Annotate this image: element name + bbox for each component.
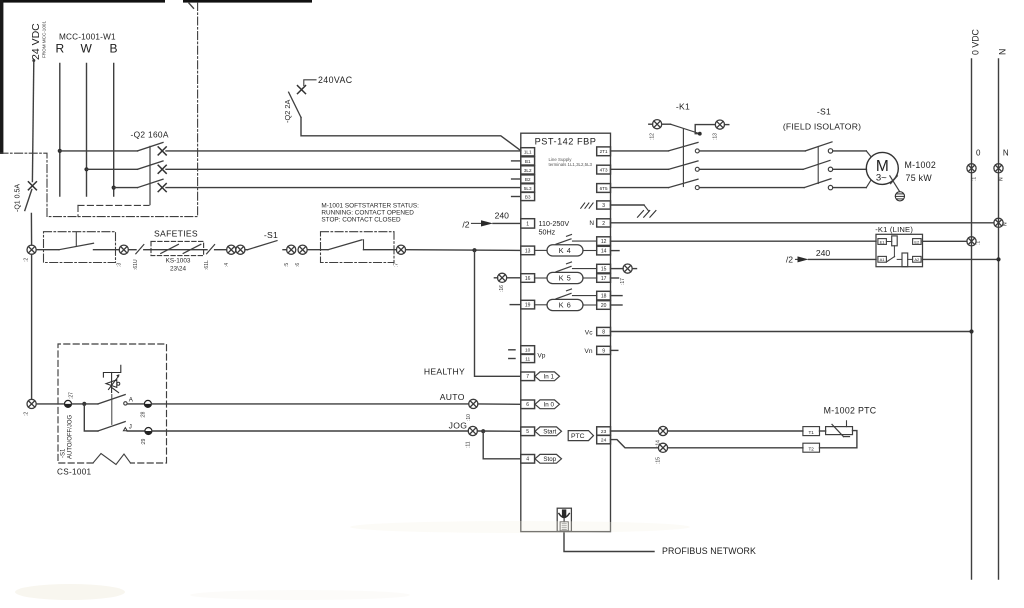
wire jog to stop [483, 431, 521, 459]
svg-text::29: :29 [141, 438, 147, 445]
svg-text::2: :2 [24, 258, 30, 262]
svg-text:Vn: Vn [584, 348, 592, 355]
pin 2T1 [597, 147, 611, 156]
contactor K1 pole 2 [669, 161, 699, 169]
interlock contact [59, 243, 94, 250]
svg-text:-Q2 2A: -Q2 2A [283, 100, 292, 123]
terminal :3 [119, 245, 128, 254]
wire to pin 24 [611, 440, 659, 448]
svg-text::1: :1 [971, 177, 977, 181]
wire auto row [152, 403, 469, 405]
svg-text:-Q2 160A: -Q2 160A [131, 130, 169, 140]
svg-text:7: 7 [526, 374, 529, 380]
svg-text:1L1: 1L1 [524, 150, 532, 155]
svg-text:6: 6 [526, 402, 529, 408]
terminal :10 [469, 399, 478, 408]
motor earth symbol [895, 192, 904, 201]
svg-text:-S1: -S1 [264, 230, 278, 240]
softstarter U1 PST-142 FBP outline [521, 133, 611, 531]
wire [695, 125, 715, 134]
CS-1001 box (dashed) [58, 344, 167, 463]
svg-text:4: 4 [526, 457, 529, 463]
svg-text:15: 15 [601, 267, 607, 273]
svg-text:W: W [81, 42, 93, 56]
wire :2 to :27 [31, 254, 33, 399]
junction [698, 132, 702, 136]
svg-text:240VAC: 240VAC [318, 75, 353, 85]
wire pill K4 to 14 [583, 250, 597, 252]
svg-text:PROFIBUS NETWORK: PROFIBUS NETWORK [662, 546, 756, 556]
K1 coil [892, 236, 898, 246]
terminal :11 [468, 426, 477, 435]
svg-text:3: 3 [602, 203, 605, 209]
wire through safeties box [151, 249, 204, 251]
stub 19 [510, 304, 521, 306]
wire [820, 430, 826, 432]
terminal :1 [967, 237, 976, 246]
svg-text::11: :11 [465, 441, 471, 448]
wire to interlock contact [36, 249, 59, 251]
pin 4T3 [597, 165, 611, 174]
pin B2 [521, 175, 535, 183]
svg-text:18: 18 [601, 294, 607, 300]
svg-text:/2: /2 [786, 255, 793, 265]
stub 18 [611, 295, 623, 297]
svg-text:In 1: In 1 [544, 374, 555, 381]
MCC-1001 panel boundary (dash-dot) [0, 3, 198, 217]
svg-text:23\24: 23\24 [170, 266, 186, 273]
pin 7 In1 [521, 372, 535, 381]
wire [245, 249, 248, 251]
svg-text::61L: :61L [204, 260, 210, 270]
pin E2 [913, 239, 922, 245]
pin 18 [597, 291, 611, 300]
svg-text:2T1: 2T1 [600, 149, 608, 154]
svg-text:/2: /2 [462, 219, 469, 229]
svg-text::7: :7 [394, 263, 400, 267]
svg-text:20: 20 [601, 303, 607, 309]
wire to PST terminal 13 [406, 249, 521, 252]
pin B1 [521, 157, 535, 165]
terminal :29 [127, 430, 144, 432]
terminal (unlabelled) [236, 245, 245, 254]
svg-text:terminals 1L1,3L2,5L3: terminals 1L1,3L2,5L3 [549, 162, 593, 167]
pin 15 [597, 264, 611, 273]
breaker Q2 pole 1 [60, 150, 138, 152]
wire 2T1 to K1 [611, 150, 669, 152]
svg-text::15: :15 [656, 457, 662, 464]
terminal :28 [127, 403, 144, 405]
svg-text::28: :28 [141, 411, 147, 418]
wire [307, 249, 328, 251]
terminal :7 [396, 245, 405, 254]
terminal :27 [65, 400, 72, 407]
terminal :14 [658, 426, 667, 435]
run contact box (dash-dot) [321, 232, 395, 263]
svg-text::6: :6 [295, 263, 301, 267]
terminal :5 [287, 245, 296, 254]
junction on N bus [996, 257, 1000, 261]
svg-text:Stop: Stop [543, 456, 556, 463]
svg-text:24 VDC: 24 VDC [30, 23, 42, 60]
stub 20 [611, 304, 623, 306]
wire jog row [152, 430, 468, 432]
fieldbus plug connector [557, 508, 571, 531]
wire pin12 to K1 coil [611, 240, 877, 242]
wire [36, 403, 64, 405]
svg-text:E1: E1 [880, 239, 886, 244]
svg-text:(FIELD ISOLATOR): (FIELD ISOLATOR) [783, 122, 861, 132]
pin A1 [878, 256, 887, 262]
wire K1 coil feed [662, 123, 671, 125]
wire A2 to N bus [923, 258, 999, 260]
pin 4 Stop [521, 455, 535, 464]
stub 15 terminal :17 [611, 268, 624, 270]
pin T2 [803, 443, 820, 452]
relay K4 [547, 245, 583, 256]
pin 14 [597, 246, 611, 255]
svg-text::2: :2 [24, 412, 30, 416]
svg-text:5L3: 5L3 [524, 186, 532, 191]
motor earth wire [890, 176, 900, 192]
svg-text:B3: B3 [525, 194, 531, 199]
wire thermistor loop [820, 431, 857, 448]
svg-text:Vp: Vp [537, 352, 545, 359]
relay K5 [547, 272, 583, 283]
svg-text:T1: T1 [809, 430, 815, 435]
svg-text:-K1: -K1 [676, 102, 690, 112]
flag 240VAC [304, 80, 316, 86]
terminal :2 (auto row) [27, 399, 36, 408]
svg-text:6T5: 6T5 [600, 186, 608, 191]
wire [204, 249, 207, 251]
svg-text:12: 12 [601, 239, 607, 245]
svg-text:0 VDC: 0 VDC [971, 28, 981, 55]
svg-text:16: 16 [525, 276, 531, 282]
disconnect :61L [207, 245, 215, 254]
svg-text:T2: T2 [809, 447, 815, 452]
terminal N [994, 218, 1003, 227]
selector contact J [84, 404, 98, 431]
K1 linkage [682, 129, 684, 187]
junction W [84, 167, 88, 171]
svg-text:K 4: K 4 [559, 246, 572, 255]
wire 24VDC vertical [32, 59, 35, 62]
bus N [998, 59, 1000, 579]
svg-text:JOG: JOG [449, 421, 468, 431]
svg-text:HEALTHY: HEALTHY [424, 367, 465, 377]
selector contact A [98, 395, 125, 404]
svg-text:17: 17 [601, 276, 607, 282]
terminal :16 [494, 277, 497, 279]
interlock contact box (dash-dot) [44, 232, 116, 263]
pin 24 [597, 435, 611, 443]
disconnect :61U [136, 245, 144, 254]
svg-text:240: 240 [816, 248, 831, 258]
junction R [58, 149, 62, 153]
svg-text::61U: :61U [133, 259, 139, 270]
thermistor M-1002 PTC [826, 427, 853, 435]
wire profibus [564, 532, 654, 552]
pin 5 Start [521, 427, 535, 436]
wire pill K6 [535, 304, 547, 306]
svg-text:K 6: K 6 [559, 300, 572, 309]
breaker Q2 dashed outline [78, 204, 149, 206]
svg-text:E2: E2 [914, 239, 920, 244]
svg-text:75 kW: 75 kW [906, 173, 933, 183]
junction on 0VDC [969, 329, 973, 333]
relay K1 LINE box [876, 234, 923, 266]
svg-text::16: :16 [499, 285, 505, 292]
svg-text:23: 23 [601, 429, 607, 435]
terminal :15 [658, 443, 667, 452]
terminal N on N bus [994, 164, 1003, 173]
pin 3L2 [521, 166, 535, 174]
svg-text:A2: A2 [914, 257, 920, 262]
selector mechanism [103, 365, 120, 377]
breaker Q2 pole 2 [87, 168, 138, 170]
svg-text:24: 24 [601, 438, 607, 444]
stub 14 [611, 250, 620, 252]
svg-text::12: :12 [650, 133, 656, 140]
svg-text:K 5: K 5 [559, 273, 572, 282]
wire T2 back [668, 447, 803, 449]
svg-text:B: B [110, 42, 118, 56]
svg-text:A: A [129, 396, 134, 403]
svg-text:M-1002: M-1002 [905, 160, 937, 170]
wire E2 to 0VDC [923, 240, 967, 242]
wire pill K5 [535, 277, 547, 279]
pin 19 [521, 300, 535, 309]
pin B3 [521, 192, 535, 200]
svg-text:FROM MCC-1001: FROM MCC-1001 [42, 21, 47, 58]
svg-text:0: 0 [976, 149, 981, 158]
pin 12 [597, 237, 611, 246]
svg-text:M-1002 PTC: M-1002 PTC [824, 406, 877, 416]
svg-text:Start: Start [543, 429, 556, 436]
svg-text:14: 14 [601, 249, 607, 255]
isolator S1 linkage [817, 147, 819, 184]
svg-text:-S1: -S1 [817, 107, 831, 117]
pin 13 [521, 246, 535, 255]
pin 3 [597, 201, 611, 209]
svg-text:8: 8 [602, 329, 605, 335]
pin 1 [521, 219, 535, 228]
svg-text:13: 13 [525, 248, 531, 254]
junction selector [82, 402, 86, 406]
motor M-1002 [866, 152, 898, 184]
run contact [328, 240, 362, 250]
pin 20 [597, 301, 611, 310]
pin 23 [597, 427, 611, 435]
wire pin23 to T1 [611, 430, 659, 432]
terminal :6 [298, 245, 307, 254]
wire phase W [86, 64, 88, 197]
svg-text:9: 9 [602, 348, 605, 354]
svg-text:N: N [998, 177, 1004, 181]
svg-text:RUNNING: CONTACT OPENED: RUNNING: CONTACT OPENED [321, 210, 414, 217]
svg-text:CS-1001: CS-1001 [57, 468, 92, 477]
svg-text::4: :4 [224, 263, 230, 267]
svg-text:J: J [129, 424, 132, 431]
svg-text:STOP: CONTACT CLOSED: STOP: CONTACT CLOSED [321, 217, 401, 224]
svg-text::13: :13 [713, 133, 719, 140]
svg-text:Vc: Vc [585, 329, 593, 336]
svg-text:KS-1003: KS-1003 [166, 257, 191, 264]
fuse-switch Q2 2A [298, 86, 306, 94]
svg-text::1: :1 [976, 241, 982, 245]
pin 6T5 [597, 184, 611, 193]
svg-text:N: N [998, 49, 1008, 55]
pin 16 [521, 274, 535, 283]
wire [128, 249, 136, 251]
pin 5L3 [521, 184, 535, 192]
svg-text:N: N [1003, 222, 1009, 226]
stub B1 [512, 160, 521, 162]
wire phase B [113, 64, 115, 197]
relay K6 [547, 299, 583, 310]
pin A2 [913, 256, 922, 262]
svg-text:2: 2 [602, 221, 605, 227]
K1 line aux [902, 253, 908, 267]
svg-text:R: R [56, 42, 65, 56]
breaker Q2 linkage bar [149, 146, 151, 204]
wire [478, 403, 521, 405]
svg-text:B1: B1 [525, 159, 531, 164]
switch S1 [248, 241, 278, 250]
stub B3 [512, 196, 521, 198]
pin 10 [509, 349, 515, 351]
safeties contact a [161, 244, 179, 253]
svg-text::17: :17 [620, 278, 626, 285]
svg-text:-K1 (LINE): -K1 (LINE) [875, 225, 913, 234]
svg-text:19: 19 [525, 303, 531, 309]
bus 0VDC [971, 59, 973, 579]
svg-text:PTC: PTC [571, 433, 585, 440]
terminal :2 on 24VDC bus [27, 245, 36, 254]
isolator S1 pole 1 [805, 142, 832, 151]
scan smudge [15, 584, 125, 600]
breaker Q2 pole 3 [114, 187, 138, 189]
svg-text:AUTO/OFF/JOG: AUTO/OFF/JOG [68, 414, 74, 459]
selector link [111, 395, 113, 425]
svg-text:In 0: In 0 [544, 402, 555, 409]
wire 6T5 to K1 [611, 187, 669, 189]
wire N pin2 to bus [611, 222, 994, 224]
svg-text:240: 240 [495, 211, 510, 221]
terminal :12 [649, 123, 653, 125]
earth mark inside box [581, 203, 585, 208]
junction healthy tap [472, 248, 476, 252]
terminal :1 on 0VDC [967, 164, 976, 173]
wire phase R [59, 64, 61, 197]
pin E1 [878, 239, 887, 245]
isolator S1 pole 3 [804, 179, 831, 188]
PTC flag [568, 431, 593, 441]
svg-text::5: :5 [284, 263, 290, 267]
stub 9 [611, 349, 618, 351]
wire healthy feed [475, 250, 521, 376]
svg-text:-Q1 0.5A: -Q1 0.5A [15, 184, 22, 212]
ground at pin 3 [611, 204, 645, 206]
svg-text::3: :3 [117, 263, 123, 267]
svg-text:PST-142 FBP: PST-142 FBP [535, 136, 597, 146]
pin 1L1 [521, 148, 535, 156]
svg-text:N: N [1003, 149, 1009, 158]
contactor K1 pole 3 [669, 179, 699, 187]
svg-text:-S1: -S1 [61, 448, 67, 458]
terminal :13 [715, 120, 724, 129]
contactor K1 pole 1 [669, 142, 699, 151]
svg-text:A1: A1 [880, 257, 886, 262]
pin 11 [509, 358, 515, 360]
svg-text:B2: B2 [525, 177, 531, 182]
svg-text:SAFETIES: SAFETIES [154, 229, 198, 239]
svg-text:3~: 3~ [876, 173, 887, 184]
safeties contact b [183, 244, 201, 253]
pin 2 N [597, 219, 611, 227]
fuse-switch Q1 0.5A [28, 182, 36, 190]
svg-text:11: 11 [525, 356, 530, 362]
svg-text:3L2: 3L2 [524, 168, 532, 173]
svg-text:MCC-1001-W1: MCC-1001-W1 [59, 33, 116, 42]
svg-text:N: N [589, 220, 594, 227]
svg-text:50Hz: 50Hz [539, 228, 556, 237]
pin 6 In0 [521, 400, 535, 409]
junction B [112, 186, 116, 190]
svg-text:10: 10 [525, 348, 531, 354]
stub 17 [611, 277, 619, 279]
svg-text:1: 1 [526, 221, 529, 227]
pin 17 [597, 274, 611, 283]
stub B2 [512, 178, 521, 180]
junction jog [481, 429, 485, 433]
wire [668, 430, 803, 432]
svg-text::27: :27 [69, 392, 75, 399]
terminal :4 [227, 245, 236, 254]
scan artifact bars [0, 0, 3, 154]
safeties KS-1003 box (dashed) [151, 241, 204, 255]
svg-text:M-1001 SOFTSTARTER STATUS:: M-1001 SOFTSTARTER STATUS: [321, 203, 419, 210]
wire Vc to 0VDC [611, 331, 972, 333]
svg-text:5: 5 [526, 429, 529, 435]
wire 4T3 to K1 [611, 168, 669, 170]
svg-text:4T3: 4T3 [600, 168, 608, 173]
pin T1 [803, 427, 820, 436]
svg-text:AUTO: AUTO [440, 392, 465, 402]
isolator S1 pole 2 [803, 160, 830, 169]
